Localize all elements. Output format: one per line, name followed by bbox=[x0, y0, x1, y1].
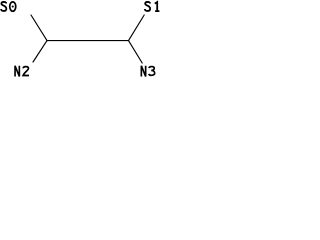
atom label N2 bbox=[15, 66, 29, 77]
atom label S1 bbox=[145, 2, 160, 11]
bond C5-S1 bbox=[129, 15, 145, 41]
bond C4-N2 bbox=[33, 41, 47, 62]
bond C5-N3 bbox=[129, 41, 143, 63]
bond C4-C5 bbox=[47, 40, 129, 42]
bond S0-C4 bbox=[31, 15, 47, 41]
atom label S0 bbox=[1, 2, 16, 11]
atom label N3 bbox=[141, 66, 154, 77]
